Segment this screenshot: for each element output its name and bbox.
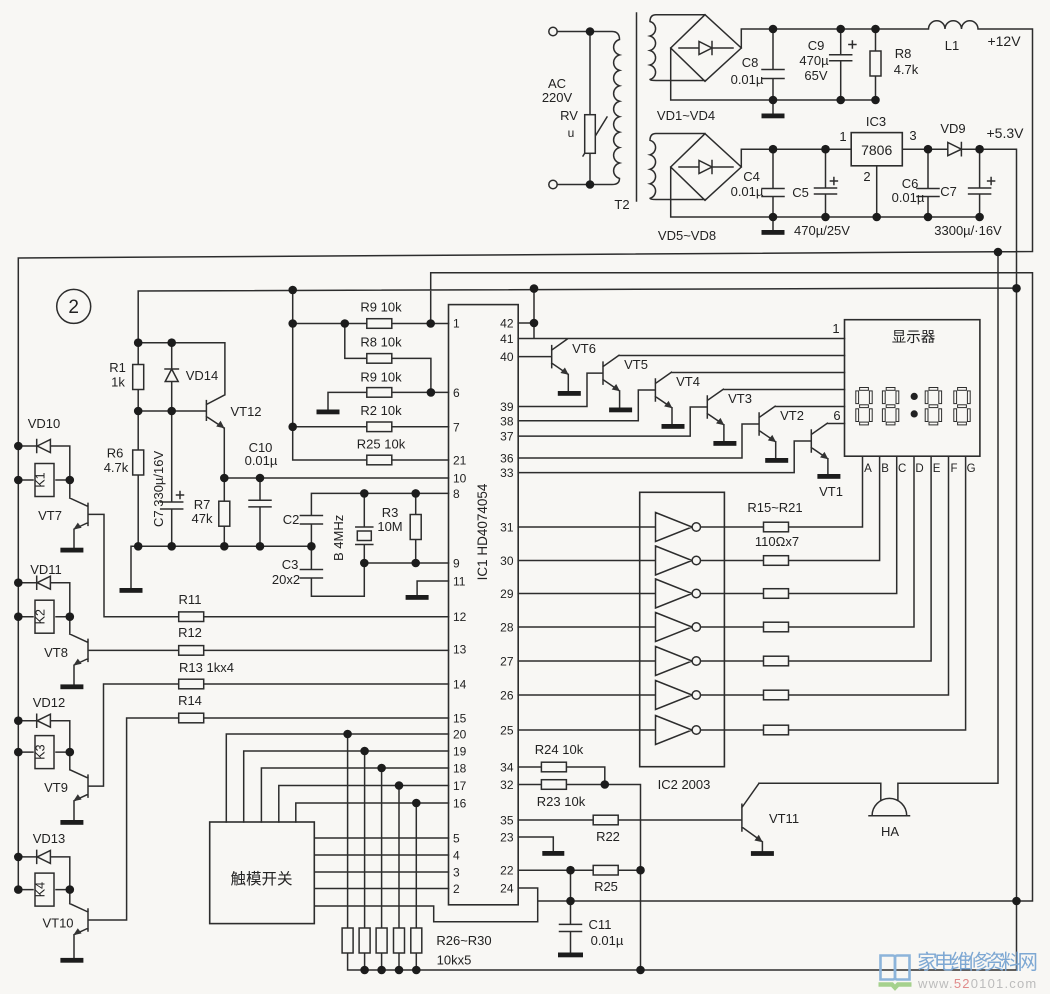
svg-text:19: 19 — [453, 745, 467, 759]
svg-text:2: 2 — [453, 882, 460, 896]
svg-text:R8: R8 — [895, 46, 912, 61]
svg-text:R7: R7 — [194, 497, 211, 512]
svg-text:6: 6 — [453, 386, 460, 400]
svg-text:VD1~VD4: VD1~VD4 — [657, 108, 715, 123]
svg-text:7806: 7806 — [861, 142, 892, 158]
svg-text:C9: C9 — [808, 38, 825, 53]
svg-text:47k: 47k — [192, 511, 213, 526]
svg-text:65V: 65V — [804, 68, 827, 83]
svg-text:C8: C8 — [742, 55, 759, 70]
svg-text:21: 21 — [453, 454, 467, 468]
svg-text:C4: C4 — [743, 169, 760, 184]
svg-text:16: 16 — [453, 797, 467, 811]
svg-text:470µ/25V: 470µ/25V — [794, 223, 850, 238]
svg-text:触模开关: 触模开关 — [230, 870, 292, 888]
svg-text:VT6: VT6 — [572, 341, 596, 356]
svg-text:+5.3V: +5.3V — [987, 125, 1025, 141]
svg-text:18: 18 — [453, 762, 467, 776]
svg-text:G: G — [967, 463, 976, 475]
svg-text:1: 1 — [453, 317, 460, 331]
svg-text:0.01µ: 0.01µ — [245, 453, 278, 468]
svg-text:14: 14 — [453, 678, 467, 692]
svg-text:10: 10 — [453, 472, 467, 486]
svg-text:R24 10k: R24 10k — [535, 742, 584, 757]
svg-text:2: 2 — [68, 297, 79, 318]
svg-text:L1: L1 — [945, 38, 959, 53]
svg-text:R3: R3 — [382, 505, 399, 520]
svg-text:C11: C11 — [589, 917, 612, 932]
svg-text:0.01µ: 0.01µ — [731, 184, 764, 199]
svg-text:VT10: VT10 — [42, 916, 73, 931]
svg-text:R6: R6 — [107, 446, 124, 461]
svg-text:12: 12 — [453, 610, 467, 624]
svg-text:C5: C5 — [792, 185, 809, 200]
svg-text:27: 27 — [500, 655, 514, 669]
svg-text:1: 1 — [832, 321, 839, 336]
svg-text:K4: K4 — [34, 882, 48, 897]
svg-text:36: 36 — [500, 452, 514, 466]
svg-text:VD14: VD14 — [186, 368, 219, 383]
svg-text:F: F — [950, 463, 957, 475]
svg-text:VT2: VT2 — [780, 408, 804, 423]
svg-text:VT11: VT11 — [769, 811, 799, 826]
svg-text:0.01µ: 0.01µ — [892, 190, 925, 205]
svg-text:4: 4 — [453, 849, 460, 863]
svg-text:E: E — [933, 463, 941, 475]
svg-text:15: 15 — [453, 712, 467, 726]
svg-text:R2 10k: R2 10k — [360, 403, 402, 418]
svg-text:家电维修资料网: 家电维修资料网 — [917, 951, 1038, 974]
svg-text:35: 35 — [500, 814, 514, 828]
svg-text:AC: AC — [548, 76, 566, 91]
svg-text:u: u — [568, 126, 575, 140]
svg-text:28: 28 — [500, 621, 514, 635]
svg-text:470µ: 470µ — [799, 53, 829, 68]
svg-text:C2: C2 — [283, 512, 300, 527]
svg-text:VD5~VD8: VD5~VD8 — [658, 228, 716, 243]
svg-text:C: C — [898, 463, 906, 475]
svg-text:R23 10k: R23 10k — [537, 794, 586, 809]
svg-text:3300µ/·16V: 3300µ/·16V — [934, 223, 1002, 238]
svg-text:38: 38 — [500, 414, 514, 428]
svg-text:VT1: VT1 — [819, 484, 843, 499]
svg-text:VT8: VT8 — [44, 645, 68, 660]
svg-text:C6: C6 — [902, 176, 919, 191]
svg-text:+12V: +12V — [987, 33, 1021, 49]
svg-text:17: 17 — [453, 779, 467, 793]
svg-text:37: 37 — [500, 430, 514, 444]
svg-text:42: 42 — [500, 317, 514, 331]
svg-text:0.01µ: 0.01µ — [731, 72, 764, 87]
svg-text:RV: RV — [560, 108, 578, 123]
svg-text:K3: K3 — [34, 744, 48, 759]
svg-text:R11: R11 — [179, 592, 202, 607]
svg-text:R15~R21: R15~R21 — [747, 500, 802, 515]
svg-text:22: 22 — [500, 864, 514, 878]
svg-text:A: A — [864, 463, 872, 475]
svg-text:显示器: 显示器 — [892, 330, 936, 346]
svg-text:0.01µ: 0.01µ — [591, 933, 624, 948]
svg-text:C7 330µ/16V: C7 330µ/16V — [151, 451, 166, 527]
svg-text:30: 30 — [500, 554, 514, 568]
svg-text:VD9: VD9 — [940, 121, 965, 136]
svg-text:C7: C7 — [940, 184, 957, 199]
svg-text:VD10: VD10 — [28, 416, 61, 431]
svg-text:13: 13 — [453, 643, 467, 657]
svg-text:D: D — [915, 463, 923, 475]
svg-text:VT4: VT4 — [676, 374, 700, 389]
svg-text:R9 10k: R9 10k — [360, 300, 402, 315]
svg-text:K1: K1 — [34, 472, 48, 487]
svg-text:32: 32 — [500, 778, 514, 792]
svg-text:24: 24 — [500, 882, 514, 896]
svg-text:23: 23 — [500, 831, 514, 845]
svg-text:2: 2 — [863, 169, 870, 184]
svg-text:B: B — [881, 463, 889, 475]
svg-text:6: 6 — [833, 408, 840, 423]
svg-text:R22: R22 — [596, 829, 620, 844]
svg-text:110Ωx7: 110Ωx7 — [755, 534, 799, 549]
svg-text:31: 31 — [500, 521, 514, 535]
svg-text:29: 29 — [500, 587, 514, 601]
svg-text:8: 8 — [453, 487, 460, 501]
svg-text:4.7k: 4.7k — [104, 460, 129, 475]
svg-text:VT12: VT12 — [230, 404, 261, 419]
svg-text:R9 10k: R9 10k — [360, 369, 402, 384]
svg-text:34: 34 — [500, 761, 514, 775]
svg-text:20x2: 20x2 — [272, 572, 300, 587]
svg-text:5: 5 — [453, 832, 460, 846]
svg-text:R8 10k: R8 10k — [360, 335, 402, 350]
svg-text:1: 1 — [839, 129, 846, 144]
svg-text:7: 7 — [453, 420, 460, 434]
svg-text:R14: R14 — [178, 693, 202, 708]
svg-text:VT5: VT5 — [624, 357, 648, 372]
svg-text:R25: R25 — [594, 879, 618, 894]
svg-text:40: 40 — [500, 350, 514, 364]
svg-text:10kx5: 10kx5 — [437, 953, 472, 968]
svg-text:20: 20 — [453, 728, 467, 742]
svg-text:R1: R1 — [109, 360, 126, 375]
svg-text:R13 1kx4: R13 1kx4 — [179, 660, 234, 675]
svg-text:11: 11 — [453, 575, 466, 589]
svg-text:R25 10k: R25 10k — [357, 436, 406, 451]
svg-text:41: 41 — [500, 332, 514, 346]
svg-text:33: 33 — [500, 466, 514, 480]
svg-text:IC1 HD4074054: IC1 HD4074054 — [475, 483, 490, 580]
svg-text:VD12: VD12 — [33, 695, 66, 710]
svg-text:25: 25 — [500, 724, 514, 738]
svg-text:220V: 220V — [542, 90, 573, 105]
svg-text:39: 39 — [500, 400, 514, 414]
svg-text:VT3: VT3 — [728, 391, 752, 406]
svg-text:K2: K2 — [34, 609, 48, 624]
svg-text:VT9: VT9 — [44, 780, 68, 795]
svg-text:IC2 2003: IC2 2003 — [658, 777, 711, 792]
svg-text:10M: 10M — [377, 519, 402, 534]
svg-text:26: 26 — [500, 689, 514, 703]
svg-text:IC3: IC3 — [866, 114, 886, 129]
svg-text:R26~R30: R26~R30 — [436, 933, 491, 948]
svg-text:VD13: VD13 — [33, 831, 66, 846]
svg-text:R12: R12 — [178, 625, 202, 640]
svg-text:www.520101.com: www.520101.com — [917, 976, 1037, 991]
svg-text:3: 3 — [909, 128, 916, 143]
svg-text:4.7k: 4.7k — [894, 62, 919, 77]
svg-text:B 4MHz: B 4MHz — [331, 515, 346, 561]
svg-text:T2: T2 — [614, 197, 629, 212]
svg-text:VT7: VT7 — [38, 508, 62, 523]
svg-text:9: 9 — [453, 557, 460, 571]
svg-text:C3: C3 — [282, 557, 299, 572]
svg-text:3: 3 — [453, 866, 460, 880]
svg-text:VD11: VD11 — [30, 562, 62, 577]
svg-text:HA: HA — [881, 824, 899, 839]
svg-text:1k: 1k — [111, 375, 125, 390]
